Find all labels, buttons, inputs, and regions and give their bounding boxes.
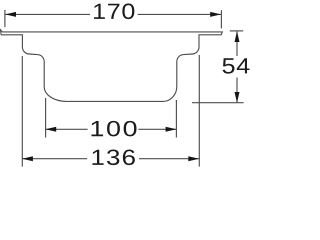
dimension 54 arrow up [235,31,240,42]
dimension 170 arrow right [210,12,221,17]
dimension 54 arrow down [235,92,240,103]
dimension 100 arrow right [166,127,177,132]
dimension 136 value label [92,150,134,166]
dimension 170 arrow left [5,12,16,17]
dimension 136 line right segment [139,158,199,160]
dimension 100 extension line left [45,98,47,138]
dimension 100 value label [92,121,137,137]
dimension 54 extension line top [230,30,243,32]
dimension 136 extension line left [21,56,23,167]
dimension 54 value label [223,58,250,73]
dimension 100 arrow left [45,127,56,132]
dimension 100 line right segment [138,128,176,130]
dimension 170 value label [94,4,134,20]
dimension 100 extension line right [175,100,177,138]
dimension 170 line right segment [138,13,221,15]
dimension 100 line left segment [46,128,88,130]
dimension 136 arrow left [22,156,33,161]
dimension 54 line upper segment [236,32,238,56]
dimension 136 extension line right [198,55,200,167]
dimension 136 arrow right [188,156,199,161]
dimension 54 extension line bottom [192,102,244,104]
basin cross-section profile [1,30,223,102]
dimension 136 line left segment [22,158,87,160]
dimension 170 extension line right [220,10,222,28]
dimension 54 line lower segment [236,78,238,103]
dimension 170 extension line left [4,10,6,27]
dimension 170 line left segment [5,13,90,15]
